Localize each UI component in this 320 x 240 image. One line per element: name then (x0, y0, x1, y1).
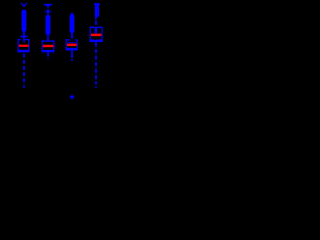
boxplot group 1 median line (19, 45, 29, 47)
boxplot group 2 median line (43, 45, 54, 47)
boxplot group 3 box (66, 39, 67, 50)
boxplot group 4 lower whisker dashed (95, 43, 97, 89)
boxplot group 1 lower whisker dashed (23, 54, 25, 88)
boxplot group 2 flier marker plus (45, 16, 51, 18)
boxplot group 2 lower whisker dashed (47, 52, 49, 58)
background (0, 0, 111, 108)
boxplot group 2 flier marker plus (45, 11, 51, 13)
boxplot group 2 top flier cap bar (44, 4, 52, 6)
boxplot group 1 flier marker v (21, 3, 27, 7)
boxplot group 3 outlier flier plus (70, 96, 75, 98)
boxplot group 2 flier marker v (46, 5, 50, 8)
boxplot group 1 upper cap (21, 36, 28, 38)
boxplot group 4 top flier cap bar (94, 3, 100, 5)
boxplot group 4 whisker stem into box (95, 28, 97, 34)
boxplot group 4 box (90, 27, 91, 42)
boxplot group 3 lower whisker dashed (71, 50, 73, 61)
boxplot group 1 whisker stem into box (23, 37, 25, 42)
boxplot group 1 box (18, 39, 19, 52)
boxplot group 2 box (42, 40, 43, 52)
boxplot group 3 inner dashed line (68, 42, 70, 43)
boxplot group 4 upper whisker (95, 17, 97, 19)
boxplot group 3 upper whisker (71, 32, 73, 38)
boxplot group 3 flier cluster (71, 13, 73, 16)
boxplot group 4 median line (91, 34, 101, 37)
boxplot group 3 median line (67, 44, 77, 47)
boxplot group 2 upper whisker (47, 34, 49, 40)
boxplot group 2 flier cluster (46, 17, 51, 34)
boxplot group 4 flier cluster (95, 4, 99, 18)
boxplot group 1 flier cluster (22, 10, 27, 32)
boxplot group 1 upper whisker (23, 31, 25, 37)
